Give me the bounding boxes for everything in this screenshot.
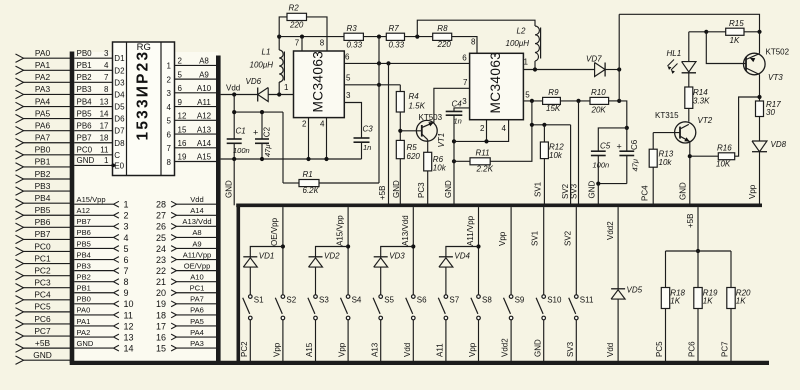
wire U1 output A15 pin 19 [175,161,217,163]
wire PB4 to U1 pin 13 [74,106,112,108]
svg-text:A11: A11 [197,98,211,107]
svg-text:14: 14 [124,344,134,354]
svg-text:16: 16 [156,332,166,342]
svg-text:R2: R2 [289,4,300,13]
svg-text:PC7: PC7 [721,341,730,357]
svg-text:PC6: PC6 [34,314,51,324]
svg-text:15K: 15K [546,104,561,113]
svg-text:PC5: PC5 [34,302,51,312]
wire PB3 to U1 pin 8 [74,93,112,95]
connector pin 9 PB1 [74,292,113,294]
svg-text:D4: D4 [114,90,125,99]
wire input PB6 [23,226,72,228]
svg-text:47μ: 47μ [263,145,272,157]
resistor R3 [344,33,363,40]
svg-text:19: 19 [178,153,187,162]
svg-text:18: 18 [100,134,109,143]
switch S4 [346,295,350,299]
svg-text:PC6: PC6 [688,341,697,357]
svg-text:D1: D1 [114,54,125,63]
resistor R2 [279,17,287,37]
svg-text:PA6: PA6 [190,306,204,315]
svg-text:C1: C1 [236,127,246,136]
svg-text:Vpp: Vpp [748,184,757,199]
svg-text:S5: S5 [384,296,394,305]
ground rail of U2 section [221,158,362,160]
svg-text:10k: 10k [659,158,673,167]
svg-text:A9: A9 [199,70,209,79]
wire input PB7 [23,238,72,240]
resistor R20 [730,251,732,288]
svg-text:S4: S4 [352,296,362,305]
svg-text:100μH: 100μH [506,39,530,48]
svg-text:15: 15 [178,125,187,134]
svg-text:5: 5 [178,70,183,79]
capacitor C6 electrolytic [626,128,628,151]
wire output vertical [618,14,620,101]
connector pin 6 PB4 [74,259,113,261]
svg-text:GND: GND [588,181,597,199]
svg-text:8: 8 [471,38,476,47]
wire PC0 to U1 pin 11 [74,154,112,156]
svg-text:PC4: PC4 [640,185,649,201]
svg-text:PB0: PB0 [77,295,91,304]
wire input PA7 [23,142,72,144]
svg-text:R15: R15 [729,19,744,28]
svg-text:R4: R4 [409,92,420,101]
wire input PB4 [23,202,72,204]
svg-text:S10: S10 [547,296,562,305]
wire input PA3 [23,93,72,95]
svg-text:R3: R3 [347,24,358,33]
wire VD6 to U2 pin 1 [268,94,293,96]
wire U3 pin5 output sense [523,100,542,102]
svg-text:Vpp: Vpp [273,342,282,357]
svg-text:Vdd: Vdd [403,343,412,357]
capacitor C3 [354,137,370,139]
svg-text:1533ИР23: 1533ИР23 [134,50,151,141]
svg-text:PB3: PB3 [77,261,91,270]
svg-text:5: 5 [167,117,172,126]
wire U2 pin5 [344,84,400,86]
svg-text:GND: GND [77,156,95,165]
svg-text:PB4: PB4 [35,193,51,203]
wire input PC3 [23,287,72,289]
svg-text:PC3: PC3 [34,278,51,288]
svg-text:PC0: PC0 [34,241,51,251]
resistor R15 [726,28,744,35]
op-amp/IC U3 MC34063 [470,53,524,119]
svg-text:100μH: 100μH [250,61,274,70]
resistor R7 [386,33,404,40]
wire input PB5 [23,214,72,216]
inductor L1 [278,37,280,50]
svg-text:2.2K: 2.2K [476,165,494,174]
svg-text:PB1: PB1 [77,284,91,293]
resistor R6 [427,140,429,153]
wire branch to L2 [417,20,535,36]
wire mid rail U3 [531,101,533,125]
transistor VT1 KT503 [416,120,437,141]
svg-text:PC2: PC2 [34,265,51,275]
svg-text:1: 1 [167,62,172,71]
svg-text:S3: S3 [319,296,329,305]
svg-text:PC2: PC2 [240,341,249,357]
svg-text:15: 15 [156,344,166,354]
svg-text:Vpp: Vpp [338,342,347,357]
wire from border S9 [510,207,512,294]
svg-text:KT503: KT503 [419,113,443,122]
svg-text:6: 6 [345,52,350,61]
wire PB2 to U1 pin 7 [74,81,112,83]
svg-text:A11: A11 [436,343,445,357]
wire input PA4 [23,106,72,108]
svg-text:A12: A12 [197,112,212,121]
svg-text:+5В: +5В [35,338,51,348]
svg-text:Vdd: Vdd [606,343,615,357]
wire from border S6 [412,207,414,294]
svg-text:PA4: PA4 [35,96,51,106]
wire U1 output A8 pin 2 [175,64,217,66]
svg-text:PB7: PB7 [77,134,93,143]
svg-text:1K: 1K [736,297,746,306]
svg-text:VT1: VT1 [437,133,446,148]
svg-text:A10: A10 [197,84,212,93]
svg-text:+5В: +5В [686,214,695,228]
svg-text:7: 7 [295,38,300,47]
connector pin 13 PA2 [74,336,113,338]
svg-text:25: 25 [156,233,166,243]
svg-text:3: 3 [346,91,351,100]
wire KT502 base drive [706,32,746,64]
svg-text:A8: A8 [192,228,201,237]
wire input PB0 [23,154,72,156]
connector pin 14 GND [74,347,113,349]
svg-text:220: 220 [289,20,304,29]
connector pin 12 PA1 [74,325,113,327]
svg-text:S7: S7 [449,296,459,305]
svg-text:PB5: PB5 [77,239,91,248]
svg-text:PA6: PA6 [35,120,51,130]
wire C5-C6 ground [598,183,627,185]
wire VT1 emitter to U3 pin7 [434,88,470,123]
svg-text:8: 8 [167,158,172,167]
svg-text:VD7: VD7 [586,54,602,63]
svg-text:PC4: PC4 [34,290,51,300]
wire from border S10 [543,207,545,294]
wire input PA5 [23,118,72,120]
svg-text:GND: GND [444,180,453,198]
resistor R4 [399,85,401,92]
svg-text:A11/Vpp: A11/Vpp [466,215,475,246]
svg-text:PA3: PA3 [35,84,51,94]
svg-text:C2: C2 [263,126,272,137]
svg-text:D6: D6 [114,115,125,124]
svg-text:PB4: PB4 [77,250,91,259]
svg-text:7: 7 [463,78,468,87]
svg-text:1: 1 [104,156,109,165]
wire input PA6 [23,130,72,132]
svg-text:A13/Vdd: A13/Vdd [182,217,211,226]
svg-text:PB7: PB7 [77,217,91,226]
resistor R9 [543,97,561,104]
resistor R8 [433,33,452,40]
connector pin 4 PB6 [74,236,113,238]
svg-text:9: 9 [124,288,129,298]
capacitor C5 [591,150,606,152]
svg-text:9: 9 [178,98,183,107]
diode VD5 [611,288,625,290]
svg-text:KT315: KT315 [655,111,679,120]
svg-text:SV3: SV3 [566,341,575,357]
svg-text:A15: A15 [305,342,314,357]
wire +5B feed of pull-ups [697,207,699,251]
wire from border S2 [282,207,284,294]
svg-text:S8: S8 [482,296,492,305]
svg-text:A9: A9 [192,239,201,248]
svg-text:PB7: PB7 [35,229,51,239]
svg-text:24: 24 [156,244,166,254]
svg-text:VD1: VD1 [259,252,275,261]
diode VD3 [381,247,414,257]
svg-text:PA5: PA5 [35,108,51,118]
svg-text:3: 3 [124,222,129,232]
svg-text:23: 23 [156,255,166,265]
svg-text:1: 1 [524,58,529,67]
svg-text:MC34063: MC34063 [310,51,325,113]
svg-text:PC5: PC5 [655,341,664,357]
svg-text:PC0: PC0 [77,146,93,155]
svg-text:13: 13 [124,332,134,342]
svg-text:7: 7 [167,144,172,153]
wire U3 pin1 to VD7 [523,69,594,71]
svg-text:PB3: PB3 [35,181,51,191]
svg-text:A11/Vpp: A11/Vpp [183,250,212,259]
wire R7 to R8 [405,36,433,38]
svg-text:HL1: HL1 [667,49,682,58]
svg-text:14: 14 [100,109,109,118]
svg-text:PB2: PB2 [77,272,91,281]
switch box top border [236,204,762,208]
wire +5B drop to border [388,63,390,205]
svg-text:A15/Vpp: A15/Vpp [335,215,344,246]
svg-text:10: 10 [124,299,134,309]
svg-text:R11: R11 [476,148,490,157]
wire from border S11 [575,207,577,294]
connector pin 3 PB7 [74,225,113,227]
wire U1 output A10 pin 6 [175,92,217,94]
svg-text:MC34063: MC34063 [488,52,503,114]
transistor VT3 KT502 [744,53,766,75]
diode VD4 [446,247,479,257]
resistor R1 [283,182,299,184]
wire R8 to U3 pin 8 [452,37,477,54]
wire U2 pin3 to C3 [344,103,361,139]
svg-text:22: 22 [156,266,166,276]
diode VD2 [316,247,349,257]
svg-text:PC7: PC7 [34,326,51,336]
svg-text:A13: A13 [370,342,379,357]
diode VD7 [595,63,606,77]
svg-text:D7: D7 [114,127,125,136]
wire SV3 drop [578,101,580,205]
svg-text:PA4: PA4 [190,328,204,337]
svg-text:1K: 1K [703,297,713,306]
resistor R12 [543,125,545,142]
svg-text:8: 8 [320,38,325,47]
svg-text:R9: R9 [548,88,559,97]
svg-text:PC1: PC1 [34,253,51,263]
svg-text:PA7: PA7 [190,295,204,304]
resistor R14 [688,73,690,87]
wire input PB3 [23,190,72,192]
svg-text:VD6: VD6 [246,77,262,86]
svg-text:R16: R16 [717,143,732,152]
svg-text:D8: D8 [114,139,125,148]
svg-text:S6: S6 [417,296,427,305]
svg-text:OE/Vpp: OE/Vpp [184,261,211,270]
resistor R5 [396,140,404,158]
wire R9 to R10 [560,100,590,102]
svg-text:R1: R1 [303,170,313,179]
svg-text:A15: A15 [197,153,212,162]
connector pin 1 A15/Vpp [74,203,113,205]
wire input PC4 [23,299,72,301]
svg-text:S1: S1 [254,296,264,305]
wire U1 output A13 pin 15 [175,133,217,135]
svg-text:R12: R12 [549,142,564,151]
switch S2 [281,295,285,299]
svg-text:SV3: SV3 [569,183,578,199]
svg-text:12: 12 [124,321,134,331]
op IC U1 1533IR23 body [113,42,175,176]
svg-text:PB0: PB0 [77,49,93,58]
svg-text:100n: 100n [233,146,250,155]
switch S5 [379,295,383,299]
svg-text:2: 2 [178,57,183,66]
resistor R10 [590,97,609,104]
wire vertical +5V feedback node [378,37,380,183]
wire output node C1-C2-R1 [234,111,283,113]
svg-text:VD2: VD2 [324,252,340,261]
svg-text:GND: GND [77,339,94,348]
svg-text:D5: D5 [114,103,125,112]
switch S3 [314,295,318,299]
svg-text:VD5: VD5 [627,285,643,294]
connector pin 11 PA0 [74,314,113,316]
svg-text:100n: 100n [593,161,610,170]
svg-text:GND: GND [225,180,234,198]
wire input PA1 [23,69,72,71]
switch S9 [509,295,513,299]
svg-text:4: 4 [104,61,109,70]
svg-text:PA1: PA1 [35,60,51,70]
svg-text:5: 5 [346,73,351,82]
wire R10 right [609,100,620,102]
svg-text:17: 17 [156,321,166,331]
svg-text:2: 2 [480,124,485,133]
svg-text:A14: A14 [190,206,204,215]
wire input PA0 [23,57,72,59]
wire input PC6 [23,323,72,325]
svg-text:VT3: VT3 [768,73,783,82]
svg-text:20: 20 [156,288,166,298]
svg-text:PB5: PB5 [77,109,93,118]
connector pin 10 PB0 [74,303,113,305]
svg-text:17: 17 [100,121,109,130]
wire from border S8 [478,207,480,294]
wire main rail to R3 [279,36,344,38]
svg-text:2: 2 [167,75,172,84]
svg-text:28: 28 [156,200,166,210]
switch box left border [237,204,241,363]
svg-text:VD4: VD4 [454,252,470,261]
svg-text:A14: A14 [197,139,212,148]
svg-text:11: 11 [100,146,109,155]
svg-text:6: 6 [178,84,183,93]
svg-text:PB0: PB0 [35,145,51,155]
svg-text:2: 2 [302,120,307,129]
svg-text:PB5: PB5 [35,205,51,215]
wire U1 output A11 pin 9 [175,106,217,108]
svg-text:1K: 1K [730,36,740,45]
svg-text:+: + [617,142,622,152]
diode VD5 column [617,207,619,289]
wire PB1 to U1 pin 4 [74,69,112,71]
svg-text:+5В: +5В [378,186,387,200]
svg-text:3: 3 [167,89,172,98]
wire jog to C6 [619,101,627,128]
wire GND to U1 pin 1 [74,164,112,166]
resistor R13 [652,133,654,150]
svg-text:0.33: 0.33 [347,41,363,50]
connector pin 2 A12 [74,214,113,216]
switch S1 [249,295,253,299]
svg-text:R5: R5 [407,143,418,152]
svg-text:C3: C3 [363,125,374,134]
resistor R17 [756,101,764,117]
svg-text:Vdd2: Vdd2 [501,338,510,357]
svg-text:27: 27 [156,211,166,221]
switch S6 [412,295,416,299]
wire U1 output A12 pin 12 [175,119,217,121]
svg-text:6: 6 [167,130,172,139]
wire +5V rail U2pin6-U3pin6 [344,62,469,64]
svg-text:PB6: PB6 [35,217,51,227]
connector pin 5 PB5 [74,247,113,249]
svg-text:6.2К: 6.2К [303,186,320,195]
svg-text:KT502: KT502 [766,48,790,57]
svg-text:PA0: PA0 [35,48,51,58]
U1 inversion bubble on E0 [111,164,115,168]
capacitor C4 [454,108,470,112]
svg-text:6: 6 [124,255,129,265]
svg-text:7: 7 [124,266,129,276]
wire input PC1 [23,263,72,265]
svg-text:10K: 10K [716,159,731,168]
wire R3 to R7 [363,36,386,38]
wire VT2 emitter [689,142,691,206]
svg-text:PA1: PA1 [77,317,91,326]
switch S11 [575,295,579,299]
svg-text:11: 11 [124,310,133,320]
svg-text:5: 5 [124,244,129,254]
switch S7 [444,295,448,299]
svg-text:4: 4 [502,124,507,133]
resistor R16 [690,155,719,157]
wire input +5В [23,347,72,349]
svg-text:C: C [114,151,120,160]
